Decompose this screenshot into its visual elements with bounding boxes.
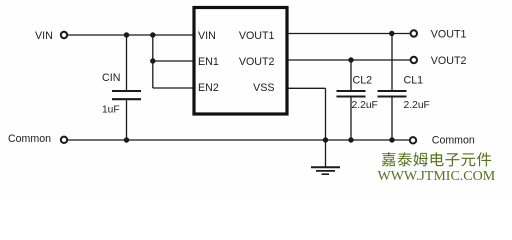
node VOUT2/CL2 junction [348,57,353,62]
terminal VIN [61,32,67,38]
svg-text:VOUT2: VOUT2 [239,56,275,68]
node VIN/EN junction [150,32,155,37]
svg-text:VSS: VSS [253,82,274,94]
svg-text:EN1: EN1 [198,56,219,68]
svg-text:CL2: CL2 [353,75,373,87]
watermark Chinese text traced outlines [382,152,492,166]
capacitor CIN plates [112,91,141,99]
wire CL1 bottom lead [391,97,393,140]
capacitor CL2 plates [337,91,366,97]
node Common/CIN junction [124,137,129,142]
svg-text:VOUT1: VOUT1 [239,30,275,42]
wire EN1 to IC [153,60,193,62]
svg-text:CIN: CIN [102,72,120,84]
terminal Common right [410,137,416,143]
svg-text:VIN: VIN [198,30,216,42]
terminal Common left [61,137,67,143]
wire VOUT2 net [288,59,410,61]
wire CL2 bottom lead [350,97,352,140]
terminal VOUT1 [411,30,417,36]
svg-text:VOUT1: VOUT1 [431,28,467,40]
svg-text:2.2uF: 2.2uF [352,100,378,111]
wire CIN top lead [126,35,128,91]
wire EN chain vertical [152,35,154,88]
svg-text:EN2: EN2 [198,82,219,94]
wire CL2 top lead [350,60,352,90]
node Common/VSS junction [323,137,328,142]
wire VSS horizontal [288,87,326,89]
wire EN2 to IC [153,87,193,89]
IC U1 body [194,8,287,115]
wire VOUT1 net [288,33,410,35]
svg-text:VIN: VIN [35,30,53,42]
svg-text:Common: Common [8,133,51,145]
wire VIN net: terminal to IC pin VIN [68,34,194,36]
wire Common net [68,139,410,141]
terminal VOUT2 [411,57,417,63]
svg-text:2.2uF: 2.2uF [404,100,430,111]
svg-text:VOUT2: VOUT2 [431,55,467,67]
node Common/CL1 junction [389,137,394,142]
node VOUT1/CL1 junction [389,31,394,36]
node VIN/CIN junction [124,32,129,37]
svg-text:CL1: CL1 [404,75,424,87]
node Common/CL2 junction [348,137,353,142]
node EN1 junction [150,58,155,63]
capacitor CL1 plates [378,91,407,97]
wire CIN bottom lead [126,100,128,140]
ground symbol [311,167,340,174]
svg-text:1uF: 1uF [102,105,120,116]
wire VSS vertical to ground [325,88,327,166]
svg-text:WWW.JTMIC.COM: WWW.JTMIC.COM [378,169,496,184]
junction dots [124,31,395,143]
wire CL1 top lead [391,34,393,91]
svg-text:Common: Common [432,135,475,147]
